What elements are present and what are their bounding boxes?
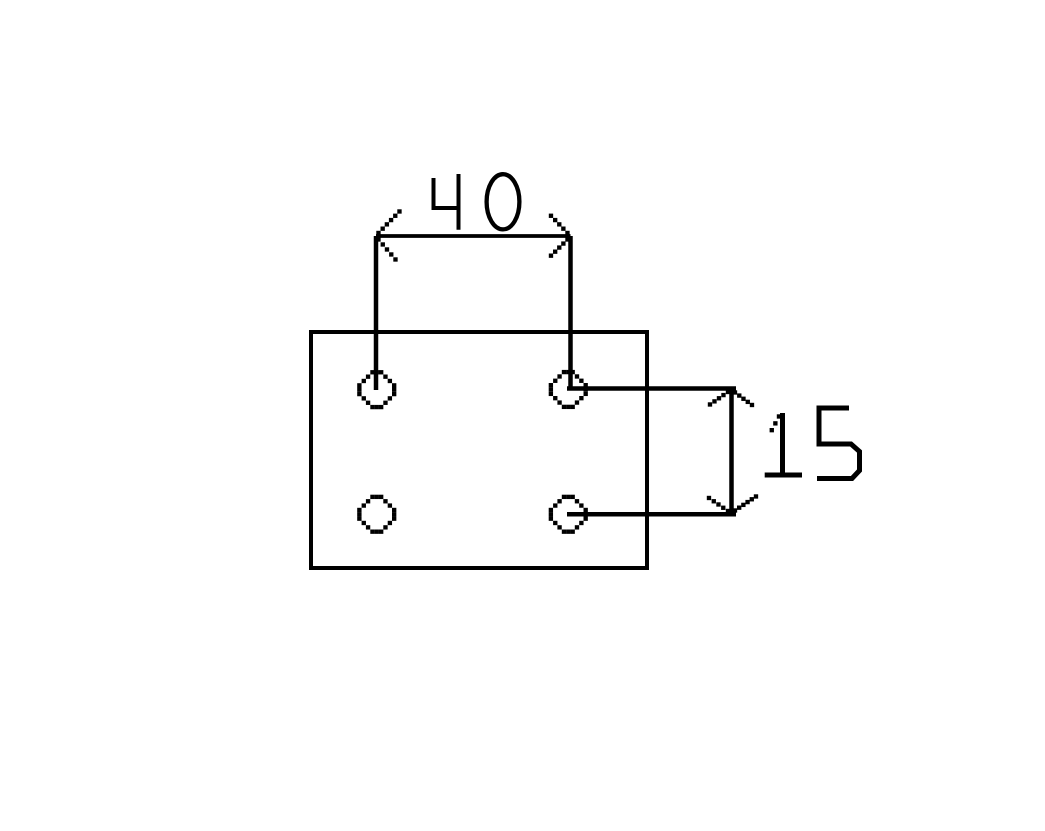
extension line top (top-right hole to dim line 15) xyxy=(567,386,736,391)
extension line right (top-right hole up to dim line 40) xyxy=(568,236,573,389)
arrowhead right of dim 40 xyxy=(549,214,570,258)
digit 4 of 40 xyxy=(434,174,459,230)
hole top-left xyxy=(357,370,396,409)
digit 0 of 40 xyxy=(487,174,520,229)
extension line bottom (bottom-right hole to dim line 15) xyxy=(567,512,736,517)
extension line left (top-left hole up to dim line 40) xyxy=(374,236,379,390)
arrowhead bottom of dim 15 xyxy=(707,494,758,513)
hole bottom-right xyxy=(549,495,588,534)
arrowhead top of dim 15 xyxy=(708,390,754,407)
digit 5 of 15 xyxy=(817,408,860,479)
plate outline rectangle xyxy=(311,332,647,568)
hole top-right xyxy=(549,370,588,409)
dimension line 15 xyxy=(729,390,734,515)
hole bottom-left xyxy=(357,495,396,534)
arrowhead left of dim 40 xyxy=(376,209,401,261)
digit 1 of 15 xyxy=(765,413,802,475)
dimension line 40 xyxy=(376,234,571,238)
